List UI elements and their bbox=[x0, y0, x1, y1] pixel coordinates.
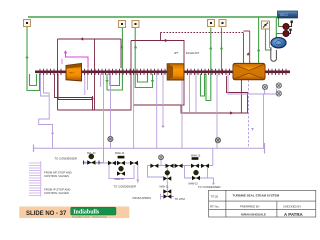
wire green drops to exhauster bbox=[276, 17, 278, 38]
svg-text:MAB- 11: MAB- 11 bbox=[160, 185, 170, 188]
turbine IPT bbox=[167, 64, 184, 80]
wire green from diagonal square down bbox=[266, 29, 272, 50]
maroon LP crossover path bbox=[181, 76, 248, 113]
gauge 3 on row bbox=[159, 155, 164, 166]
to-atm valve bbox=[163, 194, 171, 198]
manifold1 right isolation valve bbox=[130, 161, 138, 165]
violet drop x163 with arrow bbox=[162, 73, 164, 128]
manifold2 valve b bbox=[166, 164, 174, 168]
maroon casing rect B bbox=[131, 41, 184, 106]
instrument circles right of LPT bbox=[262, 83, 281, 96]
green flow arrows bbox=[25, 55, 28, 58]
maroon junction dot bbox=[230, 111, 233, 114]
violet drop x156.7 bbox=[156, 73, 158, 148]
maroon dotted IPT exhaust line bbox=[161, 32, 245, 34]
gauge 1 bbox=[108, 136, 113, 141]
violet main seal header bbox=[34, 147, 265, 149]
maroon arrow on rect B top bbox=[165, 39, 168, 42]
gray pipe from diagonal square bbox=[269, 29, 271, 48]
manifold2 control valve MAW-10 bbox=[191, 157, 199, 168]
shaft gland ticks group 1 bbox=[40, 69, 286, 75]
violet drop gauge 2 bbox=[216, 73, 218, 148]
violet drop x133.6 bbox=[133, 73, 135, 148]
wire green drop from square 2 hook bbox=[107, 28, 122, 91]
violet short drops IPT right bbox=[190, 73, 197, 113]
violet manifold 2 loop (MAW-10/15) bbox=[148, 148, 214, 178]
manifold1 control valve MAW-30 bbox=[117, 156, 125, 165]
branch valve MAB-11 lower bbox=[163, 189, 171, 193]
svg-text:MAW-15: MAW-15 bbox=[189, 182, 199, 185]
svg-text:TO CONDENSER: TO CONDENSER bbox=[55, 157, 77, 161]
svg-text:FROM APRDS: FROM APRDS bbox=[133, 196, 152, 200]
svg-text:Indiabulls: Indiabulls bbox=[73, 210, 100, 216]
wire green drop square 5 nested hook bbox=[201, 28, 222, 97]
violet manifold 1 loop (MAW-30/35) bbox=[84, 148, 138, 183]
svg-text:IPT: IPT bbox=[174, 51, 179, 55]
violet drop x182 bbox=[181, 73, 183, 148]
svg-text:SLIDE NO - 37: SLIDE NO - 37 bbox=[26, 211, 67, 217]
manifold2 valve d bbox=[201, 164, 209, 168]
manifold2 bypass valve MAW-15 bbox=[192, 170, 200, 180]
wire green drop square 4 nested hook bbox=[206, 28, 211, 101]
svg-text:MAW-10: MAW-10 bbox=[191, 154, 201, 157]
violet drops HPT right bbox=[85, 73, 88, 95]
svg-text:TURBINE SEAL STEAM SYSTEM: TURBINE SEAL STEAM SYSTEM bbox=[233, 193, 280, 197]
svg-text:Knowledge is Power · Indiabull: Knowledge is Power · Indiabulls Group bbox=[72, 216, 107, 218]
wire green top header bbox=[28, 16, 278, 18]
violet drop x228 bbox=[228, 74, 265, 94]
svg-text:MAW-30: MAW-30 bbox=[115, 152, 125, 155]
red motor valve 1 bbox=[279, 21, 293, 30]
violet drop to condenser line bbox=[103, 73, 105, 163]
violet gauge cluster link right bbox=[264, 89, 277, 149]
turbine HPT bbox=[66, 64, 82, 82]
maroon L pair lower-left bbox=[55, 74, 93, 110]
wire green drop left to HP front gland hook bbox=[27, 27, 40, 91]
instrument square S1 bbox=[24, 20, 31, 27]
svg-text:TITLE: TITLE bbox=[211, 194, 219, 198]
red motor valve 2 bbox=[277, 29, 292, 37]
violet to condenser arrow right bbox=[208, 178, 214, 184]
violet comb from stop valves bbox=[29, 161, 41, 197]
svg-text:TO CONDENSER: TO CONDENSER bbox=[198, 185, 220, 189]
instrument square S4 bbox=[208, 20, 215, 27]
violet branch to atm bbox=[161, 166, 175, 200]
instrument square S6 with diagonal bbox=[262, 21, 270, 29]
maroon drop to LP line bbox=[240, 76, 242, 113]
instrument square S2 bbox=[119, 21, 126, 28]
gland steam exhauster fan bbox=[271, 34, 286, 48]
svg-text:KIRAN BHOSALE: KIRAN BHOSALE bbox=[241, 212, 266, 216]
wire green drop from square 3 hook bbox=[135, 28, 152, 88]
maroon LP hood spray pipes bbox=[244, 31, 250, 63]
svg-text:MAW-35: MAW-35 bbox=[115, 178, 125, 181]
manifold1 left isolation valve bbox=[108, 161, 116, 165]
maroon arrow on rect A top bbox=[80, 37, 83, 40]
svg-text:CONTROL VALVES: CONTROL VALVES bbox=[44, 174, 69, 178]
svg-text:TO CONDENSER: TO CONDENSER bbox=[114, 184, 136, 188]
instrument square S5 bbox=[219, 20, 226, 27]
maroon dotted corner drop bbox=[160, 33, 162, 41]
magenta stub above HPT bbox=[61, 59, 63, 65]
maroon casing rect A bbox=[58, 39, 132, 110]
violet drop gauge 1 bbox=[110, 73, 112, 137]
svg-text:CONTROL VALVES: CONTROL VALVES bbox=[44, 191, 69, 195]
instrument square S3 bbox=[132, 21, 139, 28]
violet to-condenser line left bbox=[84, 162, 104, 164]
svg-text:A PATRA: A PATRA bbox=[284, 212, 304, 217]
branch valve MAB-11 upper bbox=[163, 171, 171, 181]
violet short drop x100.6 bbox=[100, 74, 102, 87]
svg-text:CHECKED BY: CHECKED BY bbox=[283, 204, 301, 208]
svg-text:HPT: HPT bbox=[70, 73, 75, 75]
valve MAL-30 control bbox=[84, 154, 100, 165]
loop seal under exhauster bbox=[271, 48, 277, 61]
svg-text:RTI No.: RTI No. bbox=[210, 204, 220, 208]
violet header end cap bbox=[264, 143, 266, 154]
violet dashed LP centerline bbox=[248, 64, 250, 148]
title block bbox=[209, 190, 316, 217]
banner slide no bbox=[19, 207, 129, 219]
svg-text:EXHAUST: EXHAUST bbox=[186, 51, 200, 55]
manifold1 bypass valve MAW-35 bbox=[117, 166, 125, 176]
magenta leakoff box bbox=[66, 51, 89, 68]
turbine LPT bbox=[233, 63, 265, 79]
manifold2 valve a bbox=[150, 164, 158, 168]
svg-text:MAL-30: MAL-30 bbox=[87, 152, 96, 155]
gauge 2 bbox=[215, 138, 220, 143]
svg-text:GS C: GS C bbox=[280, 13, 288, 17]
blue label box top right bbox=[278, 11, 298, 18]
violet staircase drains left bbox=[39, 74, 53, 148]
manifold2 valve c bbox=[175, 164, 183, 168]
shaft bbox=[35, 71, 290, 74]
svg-text:TO ATM.: TO ATM. bbox=[175, 197, 186, 201]
indiabulls logo bbox=[71, 207, 116, 218]
svg-text:PREPARED BY: PREPARED BY bbox=[240, 204, 260, 208]
wire green drop right gland bbox=[258, 17, 260, 74]
